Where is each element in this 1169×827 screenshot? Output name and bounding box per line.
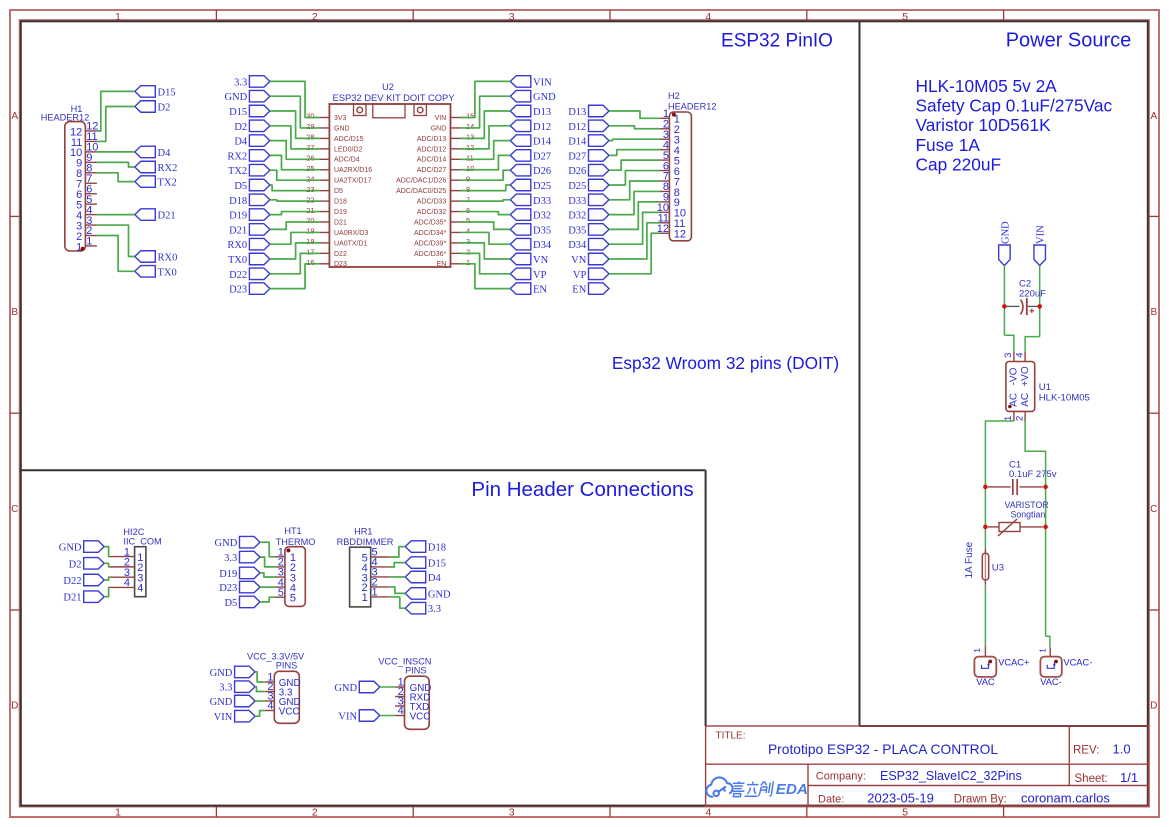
net flag RX2 (H1 side) (135, 161, 178, 174)
wire U2 pin10 to D27 (461, 155, 511, 169)
wire C2 left to U1 pin3 (1004, 335, 1014, 352)
svg-text:U1: U1 (1039, 382, 1051, 393)
svg-text:Pin Header Connections: Pin Header Connections (471, 478, 693, 501)
svg-text:HLK-10M05: HLK-10M05 (1039, 393, 1090, 404)
junction at C1 left (983, 485, 988, 490)
net flag D2 (H1 side) (135, 101, 171, 114)
wire VIN to VCC_INSCN pin4 (380, 715, 395, 717)
svg-text:4: 4 (706, 807, 712, 818)
net flag EN (H2 side) (572, 283, 609, 296)
svg-text:ADC/D33: ADC/D33 (417, 199, 447, 206)
svg-text:D19: D19 (229, 211, 247, 222)
svg-text:GND: GND (210, 697, 233, 708)
IC U2 ESP32 DEV KIT DOIT COPY (329, 104, 450, 267)
net flag D21 (H1 side) (135, 209, 176, 222)
net flag D21 (U2 left) (229, 224, 270, 237)
wire D21 to HI2C pin4 (104, 587, 110, 596)
svg-text:ADC/D12: ADC/D12 (417, 146, 447, 153)
net flag D15 (H1 side) (135, 86, 176, 99)
svg-text:ADC/D14: ADC/D14 (417, 157, 447, 164)
svg-text:30: 30 (306, 112, 314, 121)
svg-text:A: A (11, 111, 18, 122)
wire HR1 pin5 to D18 (390, 547, 405, 557)
svg-text:3.3: 3.3 (428, 604, 441, 615)
svg-text:D13: D13 (568, 107, 586, 118)
net flag 3.3 (HR1 side) (405, 602, 441, 615)
junction at C2 right (1037, 304, 1042, 309)
svg-text:HEADER12: HEADER12 (668, 102, 717, 112)
wire D14 to H2 pin3 (609, 139, 659, 140)
net flag D15 (U2 left) (229, 105, 270, 118)
net flag D13 (U2 right) (510, 105, 551, 118)
net flag D26 (U2 right) (510, 164, 551, 177)
net flag D26 (H2 side) (568, 164, 609, 177)
wire D35 to H2 pin9 (609, 202, 659, 230)
svg-text:EN: EN (533, 285, 547, 296)
svg-text:1/1: 1/1 (1120, 770, 1138, 785)
wire D12 to H2 pin2 (609, 126, 659, 129)
svg-text:Fuse 1A: Fuse 1A (916, 135, 981, 155)
svg-text:D14: D14 (533, 137, 552, 148)
svg-text:D27: D27 (568, 151, 586, 162)
svg-text:HI2C: HI2C (123, 527, 144, 537)
svg-text:5: 5 (278, 587, 284, 599)
svg-text:D18: D18 (334, 199, 347, 206)
svg-text:RX0: RX0 (158, 253, 178, 264)
svg-text:VARISTOR: VARISTOR (1005, 500, 1049, 510)
svg-text:3: 3 (1003, 353, 1014, 358)
svg-text:7: 7 (466, 195, 470, 204)
svg-text:U3: U3 (992, 563, 1004, 574)
svg-text:ADC/D27: ADC/D27 (417, 167, 447, 174)
svg-text:Cap 220uF: Cap 220uF (916, 154, 1002, 174)
svg-text:4: 4 (1014, 353, 1025, 358)
svg-text:UA2RX/D16: UA2RX/D16 (334, 167, 372, 174)
svg-text:18: 18 (306, 237, 314, 246)
svg-text:Power Source: Power Source (1006, 30, 1132, 52)
wire VIN to VCC_3.3V/5V pin4 (255, 711, 265, 717)
svg-text:ADC/D32: ADC/D32 (417, 209, 447, 216)
svg-text:AC: AC (1008, 393, 1019, 407)
svg-text:D4: D4 (234, 137, 248, 148)
wire GND to VCC_3.3V/5V pin3 (255, 700, 265, 702)
svg-text:U2: U2 (382, 82, 394, 92)
wire GND to VCC_INSCN pin1 (380, 686, 395, 688)
svg-text:D35: D35 (533, 225, 551, 236)
wire U2 pin3 to VN (461, 243, 511, 259)
svg-text:ADC/D4: ADC/D4 (334, 157, 360, 164)
svg-text:D14: D14 (568, 137, 587, 148)
title block border (706, 726, 1149, 806)
wire D32 to H2 pin8 (609, 191, 659, 214)
svg-text:TX2: TX2 (158, 178, 177, 189)
wire D34 to H2 pin10 (609, 212, 659, 244)
net flag D25 (H2 side) (568, 179, 609, 192)
svg-text:1: 1 (972, 648, 982, 653)
svg-text:5: 5 (290, 593, 296, 605)
wire HR1 pin2 to GND (390, 587, 405, 593)
svg-text:VCAC-: VCAC- (1063, 657, 1092, 667)
varistor RV (VARISTOR Songtian) (988, 526, 999, 528)
svg-text:EDA: EDA (776, 781, 808, 798)
svg-text:10: 10 (466, 164, 474, 173)
svg-text:5: 5 (902, 807, 908, 818)
svg-text:0.1uF 275v: 0.1uF 275v (1009, 469, 1057, 480)
svg-text:D13: D13 (533, 107, 551, 118)
svg-text:3.3: 3.3 (234, 77, 247, 88)
svg-text:D26: D26 (568, 166, 586, 177)
wire RX2 to U2 pin25 (270, 155, 320, 169)
net flag D12 (U2 right) (510, 120, 551, 133)
wire right rail to VCAC- (1046, 636, 1050, 647)
net flag D4 (HR1 side) (405, 571, 441, 584)
svg-text:D15: D15 (428, 559, 446, 570)
svg-text:HR1: HR1 (354, 527, 372, 537)
connector H1 HEADER12 (65, 122, 86, 251)
wire 3.3 to HT1 pin2 (260, 557, 275, 567)
svg-text:D35: D35 (568, 225, 586, 236)
partition line right of Pin Header Connections (705, 470, 707, 726)
wire D22 to HI2C pin3 (104, 577, 110, 580)
svg-text:ADC/D36*: ADC/D36* (414, 251, 447, 258)
wire TX2 to U2 pin24 (270, 170, 320, 180)
svg-text:RX2: RX2 (158, 163, 178, 174)
junction at varistor right (1043, 525, 1048, 530)
wire H1 pin8 to TX2 (97, 173, 135, 182)
svg-text:4: 4 (466, 227, 470, 236)
net flag D4 (U2 left) (234, 135, 270, 148)
net flag GND (VCC_INSCN side) (334, 681, 379, 694)
svg-text:D15: D15 (158, 87, 176, 98)
svg-text:1A Fuse: 1A Fuse (964, 541, 975, 578)
connector VAC- (VCAC-) (1049, 647, 1051, 656)
net flag D19 (HT1 side) (219, 567, 260, 580)
svg-text:4: 4 (124, 577, 130, 589)
svg-text:B: B (1150, 307, 1157, 318)
partition line below ESP32 PinIO (20, 469, 706, 471)
net flag D35 (U2 right) (510, 224, 551, 237)
svg-text:29: 29 (306, 122, 314, 131)
svg-text:11: 11 (466, 154, 474, 163)
svg-text:26: 26 (306, 154, 314, 163)
svg-text:ADC/D34*: ADC/D34* (414, 230, 447, 237)
wire U2 pin13 to D13 (461, 111, 511, 138)
svg-text:ADC/D35*: ADC/D35* (414, 219, 447, 226)
wire H1 pin3 to RX0 (97, 225, 135, 256)
net flag D22 (U2 left) (229, 268, 270, 281)
svg-text:GND: GND (431, 125, 447, 132)
net flag D23 (U2 left) (229, 283, 270, 296)
svg-text:HEADER12: HEADER12 (41, 113, 90, 123)
junction at C1 right (1043, 485, 1048, 490)
svg-text:28: 28 (306, 133, 314, 142)
wire VP to H2 pin12 (609, 233, 659, 274)
svg-text:D12: D12 (568, 122, 586, 133)
svg-text:23: 23 (306, 185, 314, 194)
capacitor C1 0.1uF 275v (988, 486, 1011, 488)
svg-text:D15: D15 (229, 107, 247, 118)
svg-text:15: 15 (466, 112, 474, 121)
wire U2 pin8 to D25 (461, 185, 511, 191)
svg-text:12: 12 (674, 229, 686, 241)
net flag VIN (VCC_3.3V/5V side) (214, 710, 255, 723)
wire U2 pin12 to D12 (461, 126, 511, 149)
svg-text:UA2TX/D17: UA2TX/D17 (334, 178, 371, 185)
svg-text:GND: GND (224, 92, 247, 103)
wire H1 pin12 to D15 (97, 91, 135, 131)
svg-text:D32: D32 (568, 211, 586, 222)
svg-text:1: 1 (1038, 648, 1048, 653)
svg-text:D5: D5 (224, 598, 237, 609)
svg-text:Esp32 Wroom 32 pins (DOIT): Esp32 Wroom 32 pins (DOIT) (612, 353, 839, 373)
junction at C2 left (1002, 304, 1007, 309)
wire D27 to H2 pin4 (609, 150, 659, 156)
svg-text:17: 17 (306, 248, 314, 257)
connector VCC_INSCN PINS (405, 676, 430, 729)
svg-text:D34: D34 (568, 240, 587, 251)
net flag D18 (HR1 side) (405, 541, 446, 554)
svg-text:ESP32 PinIO: ESP32 PinIO (721, 31, 833, 52)
net flag D27 (H2 side) (568, 150, 609, 163)
wire D13 to H2 pin1 (609, 111, 659, 118)
svg-text:D2: D2 (158, 103, 171, 114)
net flag EN (U2 right) (510, 283, 547, 296)
svg-text:14: 14 (466, 122, 474, 131)
svg-text:8: 8 (466, 185, 470, 194)
svg-text:C: C (1150, 504, 1157, 515)
net flag D5 (U2 left) (234, 179, 270, 192)
svg-text:EN: EN (572, 285, 586, 296)
svg-text:6: 6 (466, 206, 470, 215)
svg-text:3: 3 (466, 237, 470, 246)
svg-text:GND: GND (215, 538, 238, 549)
svg-text:VCC: VCC (410, 711, 431, 722)
svg-text:A: A (1150, 111, 1157, 122)
wire C2 right to U1 pin4 (1025, 337, 1040, 352)
wire D33 to H2 pin7 (609, 181, 659, 200)
svg-text:coronam.carlos: coronam.carlos (1021, 791, 1110, 806)
wire D2 to HI2C pin2 (104, 563, 110, 567)
svg-text:VN: VN (533, 255, 549, 266)
wire HR1 pin3 to D4 (390, 576, 405, 578)
net flag VP (U2 right) (510, 268, 546, 281)
wire 3.3 to U2 pin30 (270, 81, 320, 117)
svg-text:Prototipo ESP32 - PLACA CONTRO: Prototipo ESP32 - PLACA CONTROL (768, 742, 998, 757)
svg-text:Date:: Date: (818, 794, 844, 806)
net flag D2 (U2 left) (234, 120, 270, 133)
net flag TX0 (H1 side) (135, 266, 177, 279)
wire GND to HT1 pin1 (260, 542, 275, 557)
svg-text:D18: D18 (428, 543, 446, 554)
svg-text:D25: D25 (533, 181, 551, 192)
wire D23 to U2 pin16 (270, 264, 320, 289)
svg-text:-VO: -VO (1008, 367, 1019, 385)
connector HR1 RBDDIMMER (350, 547, 371, 607)
svg-text:5: 5 (466, 216, 470, 225)
svg-text:9: 9 (466, 174, 470, 183)
wire 3.3 to VCC_3.3V/5V pin2 (255, 687, 265, 692)
svg-text:4: 4 (137, 583, 143, 595)
svg-text:VIN: VIN (214, 712, 233, 723)
svg-text:D22: D22 (229, 270, 247, 281)
svg-text:VP: VP (573, 270, 587, 281)
net flag GND (U2 right) (510, 90, 556, 103)
wire U2 pin15 to VIN (461, 81, 511, 117)
net flag D34 (H2 side) (568, 238, 609, 251)
net flag D22 (HI2C side) (63, 574, 104, 587)
svg-text:TX0: TX0 (228, 255, 247, 266)
svg-text:AC: AC (1020, 393, 1031, 407)
svg-text:TX0: TX0 (158, 267, 177, 278)
svg-text:HLK-10M05 5v 2A: HLK-10M05 5v 2A (916, 76, 1058, 96)
wire U2 pin1 to EN (461, 264, 511, 289)
net flag RX0 (U2 left) (227, 238, 270, 251)
net flag D34 (U2 right) (510, 238, 552, 251)
svg-text:24: 24 (306, 174, 314, 183)
svg-text:3.3: 3.3 (219, 683, 232, 694)
svg-text:D23: D23 (229, 285, 247, 296)
net flag VN (U2 right) (510, 253, 548, 266)
svg-text:C: C (11, 504, 18, 515)
connector VAC (VCAC+) (984, 647, 986, 656)
svg-text:IIC_COM: IIC_COM (123, 537, 161, 547)
svg-text:GND: GND (1000, 221, 1011, 244)
svg-text:D18: D18 (229, 196, 247, 207)
net flag D14 (H2 side) (568, 135, 609, 148)
svg-text:D33: D33 (533, 196, 551, 207)
svg-text:27: 27 (306, 143, 314, 152)
svg-text:Company:: Company: (816, 771, 866, 783)
fuse U3 1A (984, 549, 986, 553)
logo EasyEDA (嘉立创EDA) (706, 777, 732, 796)
svg-text:HT1: HT1 (284, 526, 301, 536)
svg-text:D12: D12 (533, 122, 551, 133)
wire D5 to HT1 pin5 (260, 597, 275, 602)
wire D2 to U2 pin27 (270, 126, 320, 149)
wire GND flag down to C2 left (1003, 266, 1005, 336)
junction at varistor left (983, 525, 988, 530)
svg-text:ADC/DAC0/D25: ADC/DAC0/D25 (396, 188, 446, 195)
wire GND to U2 pin29 (270, 96, 320, 128)
net flag GND (HI2C side) (59, 541, 104, 554)
svg-text:D21: D21 (334, 219, 347, 226)
net flag D32 (H2 side) (568, 209, 609, 222)
net flag D15 (HR1 side) (405, 557, 446, 570)
net flag GND (U2 left) (224, 90, 269, 103)
wire H1 pin4 to D21 (97, 214, 135, 216)
connector H2 HEADER12 (669, 112, 691, 241)
svg-text:REV:: REV: (1073, 745, 1099, 757)
wire HR1 pin1 to 3.3 (390, 597, 405, 608)
svg-text:B: B (11, 307, 18, 318)
svg-text:TITLE:: TITLE: (716, 730, 746, 741)
partition line left of Power Source (859, 21, 861, 727)
svg-text:ADC/D39*: ADC/D39* (414, 240, 447, 247)
svg-text:2: 2 (312, 807, 318, 818)
svg-text:19: 19 (306, 227, 314, 236)
svg-text:VAC: VAC (976, 677, 995, 687)
svg-text:PINS: PINS (276, 661, 297, 671)
svg-text:220uF: 220uF (1019, 289, 1046, 300)
svg-text:D21: D21 (229, 225, 247, 236)
svg-text:D27: D27 (533, 151, 551, 162)
svg-text:D21: D21 (158, 211, 176, 222)
svg-text:1: 1 (1003, 416, 1014, 421)
net flag D4 (H1 side) (135, 146, 171, 159)
wire H1 pin10 to D4 (97, 151, 135, 153)
power flag VIN (1034, 225, 1047, 266)
wire D26 to H2 pin5 (609, 160, 659, 170)
wire U1 pin1 to fuse (985, 421, 1014, 549)
connector HI2C IIC_COM (135, 547, 146, 597)
wire H1 pin11 to D2 (97, 107, 135, 142)
wire U1 pin2 to right rail (1025, 421, 1046, 636)
svg-text:D: D (1150, 700, 1157, 711)
svg-text:VIN: VIN (338, 712, 357, 723)
net flag D2 (HI2C side) (69, 558, 105, 571)
net flag TX0 (U2 left) (228, 253, 270, 266)
wire D18 to U2 pin22 (270, 200, 320, 201)
svg-text:VIN: VIN (1036, 225, 1047, 244)
svg-text:Drawn By:: Drawn By: (954, 794, 1007, 806)
net flag RX0 (H1 side) (135, 251, 178, 264)
svg-text:PINS: PINS (405, 666, 426, 676)
wire U2 pin9 to D26 (461, 170, 511, 180)
svg-text:VIN: VIN (435, 115, 447, 122)
net flag TX2 (U2 left) (228, 164, 270, 177)
svg-text:22: 22 (306, 195, 314, 204)
net flag D5 (HT1 side) (224, 596, 260, 609)
wire U2 pin7 to D33 (461, 200, 511, 201)
svg-text:D5: D5 (234, 181, 247, 192)
svg-text:ADC/D15: ADC/D15 (334, 136, 364, 143)
net flag D35 (H2 side) (568, 224, 609, 237)
wire D23 to HT1 pin4 (260, 586, 275, 588)
wire D19 to HT1 pin3 (260, 573, 275, 577)
wire H1 pin2 to TX0 (97, 236, 135, 272)
net flag D14 (U2 right) (510, 135, 552, 148)
svg-text:RBDDIMMER: RBDDIMMER (337, 537, 394, 547)
svg-text:D32: D32 (533, 211, 551, 222)
wire U2 pin11 to D14 (461, 141, 511, 160)
svg-text:12: 12 (466, 143, 474, 152)
wire D25 to H2 pin6 (609, 171, 659, 185)
capacitor C2 220uF (1006, 305, 1020, 307)
svg-text:21: 21 (306, 206, 314, 215)
svg-text:D22: D22 (334, 251, 347, 258)
svg-text:Varistor 10D561K: Varistor 10D561K (916, 115, 1052, 135)
svg-text:20: 20 (306, 216, 314, 225)
svg-text:GND: GND (334, 125, 350, 132)
net flag D19 (U2 left) (229, 209, 270, 222)
connector VCC_3.3V/5V PINS (274, 671, 299, 723)
svg-text:D: D (11, 700, 18, 711)
svg-text:2023-05-19: 2023-05-19 (867, 791, 934, 806)
svg-text:D5: D5 (334, 188, 343, 195)
svg-text:GND: GND (428, 589, 451, 600)
wire U2 pin6 to D32 (461, 212, 511, 215)
partition line below Power Source (860, 725, 1149, 727)
net flag D13 (H2 side) (568, 105, 609, 118)
svg-text:TX2: TX2 (228, 166, 247, 177)
svg-text:1: 1 (466, 258, 470, 267)
svg-text:LED0/D2: LED0/D2 (334, 146, 363, 153)
wire VN to H2 pin11 (609, 223, 659, 259)
svg-text:1: 1 (362, 592, 368, 604)
wire GND to VCC_3.3V/5V pin1 (255, 672, 265, 682)
wire D22 to U2 pin17 (270, 253, 320, 273)
svg-text:4: 4 (267, 700, 273, 712)
